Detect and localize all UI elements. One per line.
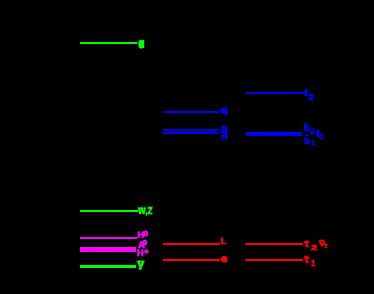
label H+ (charged Higgs) bbox=[137, 249, 144, 259]
label L (left slepton) bbox=[221, 237, 227, 247]
right selectron e mass line bbox=[163, 259, 220, 261]
stau1 mass line bbox=[245, 259, 303, 261]
label b~1 (sbottom 1) bbox=[304, 137, 310, 147]
label H0 (heavy Higgs) bbox=[137, 231, 144, 241]
gluino mass line bbox=[80, 42, 137, 45]
label b~2 (sbottom 2) bbox=[304, 124, 310, 134]
left slepton L mass line bbox=[163, 243, 220, 245]
label A0 (pseudoscalar Higgs) bbox=[138, 241, 145, 251]
label W~,Z~ (wino, zino) bbox=[138, 207, 153, 216]
up squark u~ mass line bbox=[163, 129, 219, 131]
sbottom/stop cluster thick mass line bbox=[246, 132, 302, 136]
heavy Higgs H0 mass line bbox=[80, 237, 137, 239]
stop t~2 mass line bbox=[246, 92, 303, 94]
label nu~tau (tau sneutrino) bbox=[319, 239, 325, 249]
label d~ (down squark) bbox=[221, 132, 228, 141]
A0 / H+ Higgs thick mass line bbox=[80, 247, 136, 252]
photino mass line bbox=[80, 265, 136, 268]
squark q~ mass line bbox=[163, 111, 220, 113]
label u~ (up squark) bbox=[221, 125, 228, 134]
label gamma~ (photino) bbox=[137, 259, 144, 270]
label tau~1 (stau 1) bbox=[304, 256, 309, 266]
down squark d~ mass line bbox=[163, 132, 219, 134]
stau2 / tau sneutrino mass line bbox=[245, 243, 303, 245]
wino/zino mass line bbox=[80, 210, 138, 213]
label t~1 (stop 1) bbox=[316, 130, 320, 140]
label g~ (gluino) bbox=[139, 42, 143, 48]
label q~ (squark) bbox=[222, 110, 226, 115]
label tau~2 (stau 2) bbox=[304, 240, 309, 250]
label e (selectron) bbox=[222, 257, 227, 261]
label t~2 (stop 2) bbox=[304, 89, 308, 99]
